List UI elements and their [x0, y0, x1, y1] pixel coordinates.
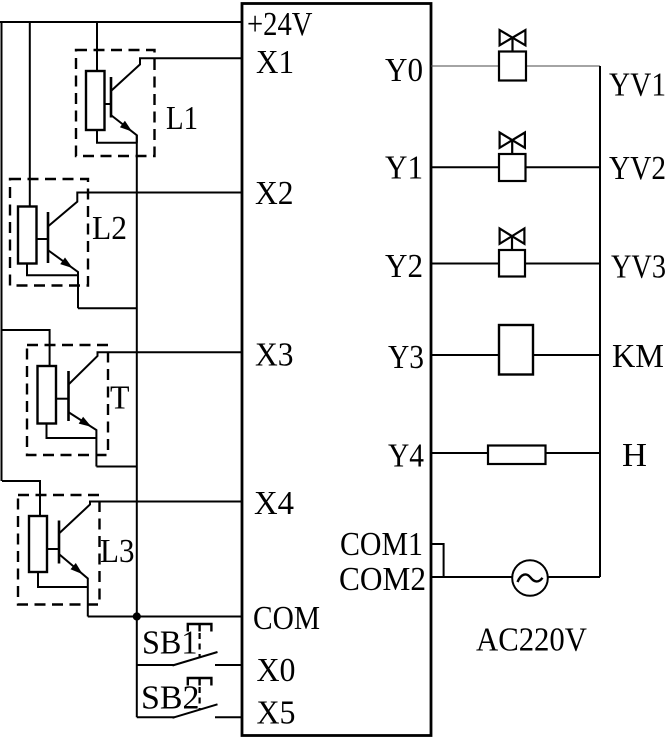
- svg-text:COM2: COM2: [339, 561, 426, 598]
- sensor L1 photoresistor element: [86, 71, 105, 130]
- svg-text:SB1: SB1: [142, 625, 198, 662]
- wire Y0 line: [431, 65, 600, 67]
- svg-text:YV2: YV2: [609, 150, 666, 187]
- svg-text:X3: X3: [255, 337, 294, 374]
- solenoid valve YV3 actuator bowtie: [500, 229, 525, 244]
- indicator lamp H: [488, 446, 546, 465]
- solenoid valve YV3 stem: [511, 236, 513, 250]
- transistor T base bar: [67, 371, 70, 421]
- sensor L2 dashed enclosure: [10, 179, 88, 286]
- svg-text:H: H: [622, 437, 647, 474]
- wire T resistor-to-base link: [56, 398, 69, 400]
- pushbutton SB2 actuator dashed stem: [199, 687, 201, 710]
- pushbutton SB2 cap: [188, 678, 212, 686]
- wire right return bus: [599, 66, 601, 577]
- svg-text:Y4: Y4: [388, 438, 424, 475]
- svg-text:Y1: Y1: [385, 150, 423, 187]
- sensor L3 photoresistor element: [29, 516, 47, 572]
- node L1 emitter to COM bus: [136, 135, 138, 717]
- wire T output to bus: [96, 466, 136, 468]
- wire Y4 line: [431, 452, 600, 454]
- svg-text:COM: COM: [253, 600, 320, 637]
- svg-text:Y0: Y0: [385, 52, 423, 89]
- svg-text:COM1: COM1: [340, 526, 423, 563]
- wire L2 +24V supply: [29, 22, 31, 207]
- transistor L3 emitter with arrow: [60, 555, 88, 617]
- wire L3 +24V supply: [2, 481, 40, 516]
- pushbutton SB2 left wire: [137, 716, 175, 718]
- node COM junction dot: [133, 612, 141, 620]
- solenoid valve YV2 stem: [511, 140, 513, 154]
- wire COM2 line: [431, 576, 512, 578]
- wire L2 output to bus: [78, 307, 137, 309]
- sensor L3 dashed enclosure: [18, 495, 100, 605]
- pushbutton SB1 actuator dashed stem: [199, 633, 201, 658]
- svg-text:AC220V: AC220V: [476, 622, 587, 659]
- wire T +24V supply: [2, 330, 50, 366]
- solenoid valve YV1 actuator bowtie: [500, 30, 526, 45]
- pushbutton SB1 right wire: [215, 664, 242, 666]
- AC source symbol: [512, 560, 548, 596]
- wire L3 collector output: [60, 502, 243, 534]
- wire left supply bus: [1, 22, 3, 481]
- transistor L1 base bar: [110, 77, 113, 118]
- svg-text:L1: L1: [166, 100, 198, 137]
- svg-text:T: T: [110, 380, 130, 417]
- svg-text:YV3: YV3: [611, 249, 666, 286]
- transistor L2 base bar: [47, 212, 50, 263]
- solenoid valve YV1 coil box: [499, 52, 526, 81]
- wire L2 collector output: [49, 193, 243, 227]
- transistor T emitter with arrow: [69, 413, 96, 467]
- svg-text:Y2: Y2: [385, 248, 423, 285]
- wire Y1 line: [431, 166, 600, 168]
- solenoid valve YV1 stem: [511, 38, 513, 52]
- svg-text:+24V: +24V: [247, 6, 313, 43]
- solenoid valve YV2 coil box: [499, 154, 526, 181]
- wire T resistor bottom return: [47, 424, 97, 439]
- wire L3 resistor bottom return: [38, 572, 88, 587]
- sensor L2 photoresistor element: [18, 207, 37, 264]
- contactor coil KM: [499, 325, 533, 375]
- transistor L1 emitter with arrow: [112, 116, 137, 143]
- svg-text:Y3: Y3: [388, 339, 424, 376]
- wire Y3 line: [431, 354, 600, 356]
- wire L1 resistor bottom return: [97, 130, 137, 143]
- wire L2 resistor-to-base link: [37, 238, 49, 240]
- wire +24V rail: [0, 21, 242, 23]
- wire Y2 line: [431, 263, 600, 265]
- wire L1 +24V supply: [96, 22, 98, 71]
- wire L3 resistor-to-base link: [47, 548, 59, 550]
- pushbutton SB1 left wire: [137, 664, 175, 666]
- pushbutton SB1 blade contact: [173, 652, 218, 666]
- wire L1 collector output: [112, 58, 243, 90]
- wire T collector output: [69, 352, 242, 384]
- transistor L2 emitter with arrow: [49, 251, 79, 309]
- sensor T photoresistor element: [38, 366, 57, 424]
- pushbutton SB1 cap: [188, 624, 212, 632]
- svg-text:L3: L3: [100, 533, 135, 570]
- solenoid valve YV3 coil box: [499, 250, 525, 277]
- svg-text:YV1: YV1: [609, 67, 666, 104]
- transistor L3 base bar: [58, 521, 61, 564]
- wire L1 resistor-to-base link: [105, 103, 112, 105]
- sensor T dashed enclosure: [27, 345, 108, 455]
- svg-text:X5: X5: [257, 695, 296, 732]
- svg-text:X1: X1: [256, 44, 294, 81]
- solenoid valve YV2 actuator bowtie: [500, 133, 525, 148]
- svg-text:X4: X4: [254, 485, 294, 522]
- wire COM1 bracket: [431, 544, 444, 577]
- wire L2 resistor bottom return: [27, 264, 78, 276]
- svg-text:X0: X0: [257, 652, 296, 689]
- svg-text:L2: L2: [92, 210, 127, 247]
- wire AC source to bus: [548, 576, 600, 578]
- svg-text:SB2: SB2: [141, 680, 200, 717]
- sensor L1 dashed enclosure: [76, 50, 155, 156]
- wire COM line: [88, 616, 242, 618]
- pushbutton SB2 right wire: [215, 716, 242, 718]
- svg-text:KM: KM: [612, 338, 664, 375]
- PLC main unit box: [242, 4, 431, 736]
- pushbutton SB2 blade contact: [173, 704, 218, 718]
- svg-text:X2: X2: [255, 175, 294, 212]
